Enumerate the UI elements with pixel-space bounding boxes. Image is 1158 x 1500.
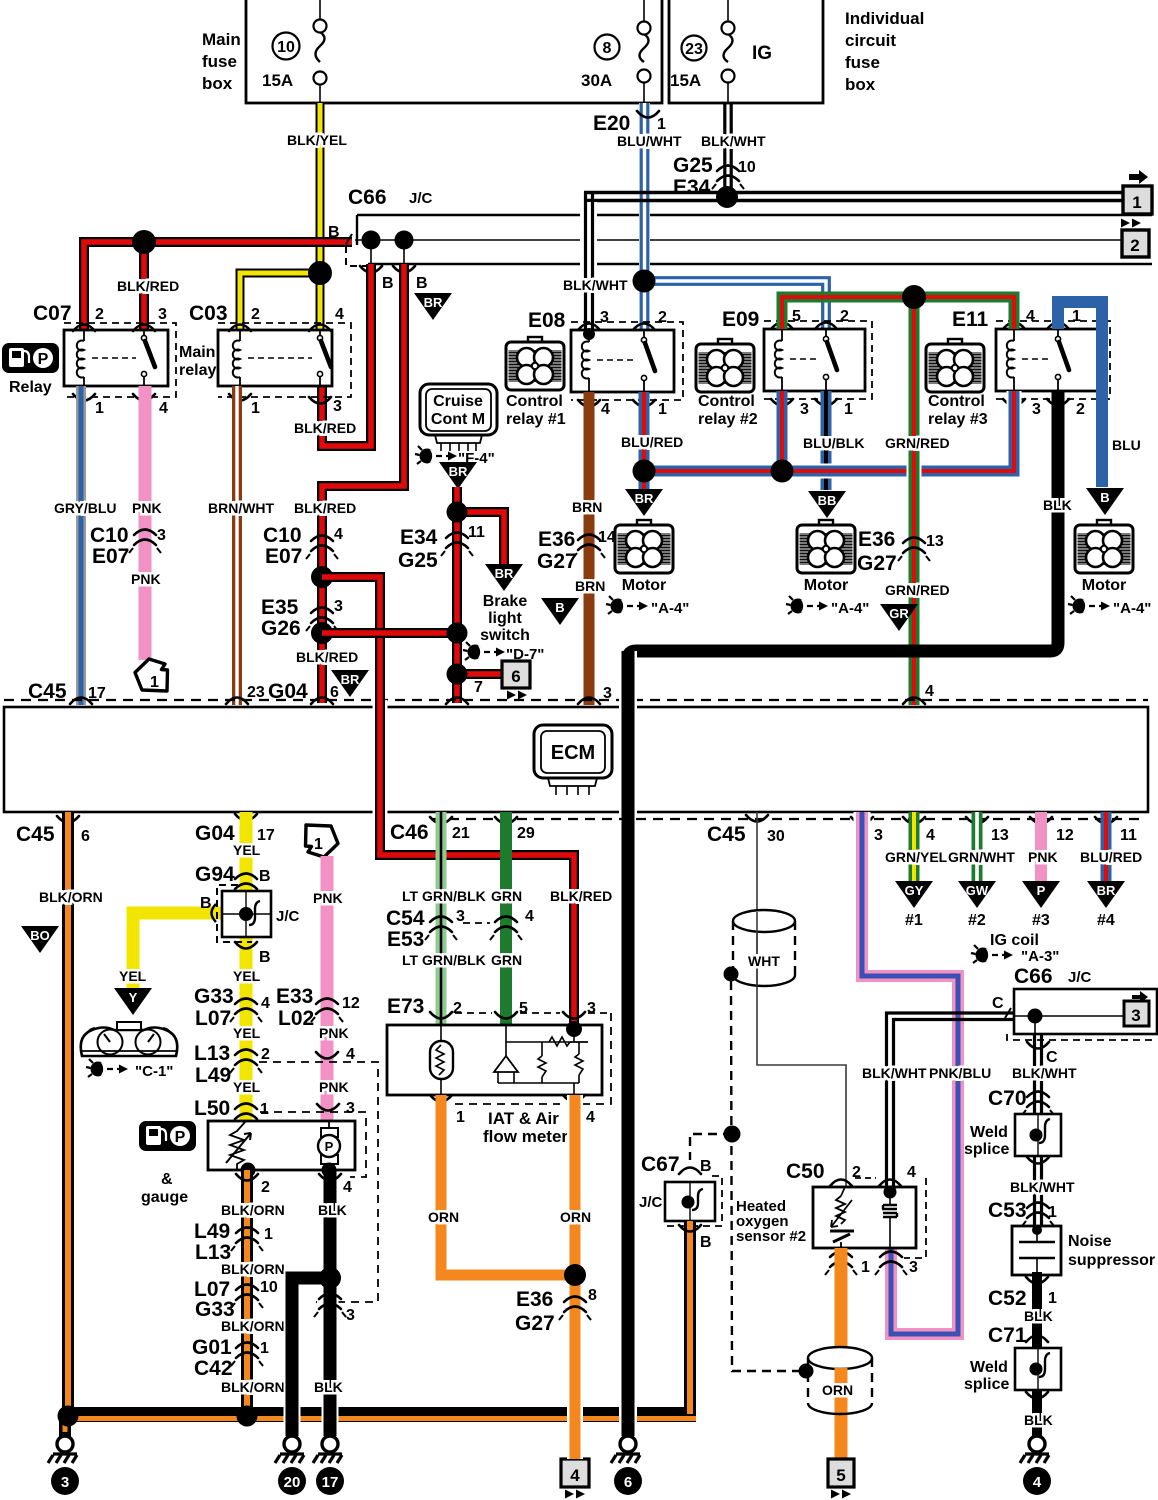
bus BLU/RED horizontal [644, 391, 1014, 471]
svg-text:4: 4 [335, 306, 344, 323]
wire BLK/WHT double to C66 and C50 [887, 1013, 1015, 1190]
svg-text:ORN: ORN [428, 1209, 459, 1225]
svg-text:3: 3 [587, 1000, 596, 1017]
svg-text:GY: GY [905, 883, 924, 898]
svg-text:relay #1: relay #1 [506, 411, 566, 428]
svg-text:5: 5 [792, 308, 801, 325]
svg-text:13: 13 [926, 533, 944, 550]
svg-text:gauge: gauge [141, 1189, 188, 1206]
dashed below C66-2 [1007, 1034, 1157, 1040]
triangle BR near C66 [414, 293, 452, 320]
wire BLK/RED cruise down [452, 487, 462, 703]
svg-text:C70: C70 [988, 1087, 1027, 1110]
svg-text:5: 5 [519, 1000, 528, 1017]
relay E09 coil [781, 329, 783, 341]
C50 pin 4 chevron [879, 1180, 901, 1187]
connector 1 box [1123, 186, 1152, 214]
svg-text:29: 29 [517, 825, 535, 842]
svg-text:C50: C50 [786, 1160, 825, 1183]
svg-text:Brake: Brake [483, 593, 528, 610]
svg-text:G25: G25 [673, 154, 713, 177]
svg-text:G33: G33 [194, 985, 234, 1008]
wire BLK/YEL branch to C03 pin 2 [240, 273, 321, 330]
connector G25/E34 pin10 [712, 166, 744, 190]
junction dot BLU/WHT [633, 270, 656, 293]
connector 2 box [1122, 230, 1149, 257]
svg-text:3: 3 [334, 598, 343, 615]
svg-text:21: 21 [452, 825, 470, 842]
triangle GR [880, 604, 918, 631]
svg-text:1: 1 [844, 401, 853, 418]
wire BLK/WHT down to E08 pin 3 [580, 193, 597, 331]
connector C54/E53 pin4 [490, 917, 522, 941]
C07 pin 2 [73, 325, 95, 332]
relay C03 box [218, 330, 332, 386]
relay C03 switch [319, 330, 321, 335]
C50 pin 2 chevron [830, 1180, 852, 1187]
G94 J/C box [222, 891, 271, 937]
wire PNK (ign) [1035, 812, 1047, 883]
svg-text:BLK: BLK [314, 1379, 343, 1395]
pin chevron B a [360, 266, 382, 273]
wire BLU/WHT bus to E09 pin 2 [638, 272, 829, 329]
svg-text:1: 1 [260, 1101, 269, 1118]
svg-text:C46: C46 [390, 821, 429, 844]
wire YEL branch to cluster [133, 913, 222, 991]
svg-text:2: 2 [840, 308, 849, 325]
ground 3 [48, 1436, 77, 1463]
wire BLU/RED E09 pin3 drop [777, 391, 788, 471]
wire BLK ground20 re-draw over bus [284, 1398, 301, 1436]
svg-text:PNK: PNK [319, 1079, 349, 1095]
relay C03 dashed link [248, 357, 312, 359]
junction dot bus at E08 [633, 460, 656, 483]
svg-text:PNK/BLU: PNK/BLU [929, 1065, 991, 1081]
svg-text:PNK: PNK [131, 571, 161, 587]
connector E35/G26 pin3 [306, 608, 338, 632]
box 5 [828, 1459, 854, 1487]
svg-text:E34: E34 [673, 176, 711, 199]
pin chevron C03-3 [309, 397, 331, 404]
svg-text:E11: E11 [952, 308, 989, 331]
svg-text:BLK/WHT: BLK/WHT [1010, 1179, 1075, 1195]
C07 pin 4 [133, 394, 155, 401]
svg-text:1: 1 [456, 1109, 465, 1126]
instrument cluster icon [81, 1022, 178, 1056]
svg-text:L49: L49 [195, 1064, 231, 1087]
triangle Y [114, 988, 152, 1015]
svg-text:IG: IG [752, 43, 772, 64]
G94 left pin chevron [212, 904, 217, 922]
svg-text:L02: L02 [278, 1007, 314, 1030]
wire BLK/RED C66 to C03 pin 3 [322, 264, 371, 446]
connector C70 chevrons [1022, 1092, 1054, 1116]
svg-text:Noise: Noise [1068, 1233, 1112, 1250]
weld splice 1 [1015, 1114, 1061, 1156]
svg-text:YEL: YEL [233, 842, 261, 858]
svg-text:YEL: YEL [119, 968, 147, 984]
svg-text:J/C: J/C [1068, 969, 1092, 986]
svg-text:BLK/RED: BLK/RED [296, 649, 358, 665]
svg-text:fuse: fuse [202, 52, 237, 71]
svg-text:"A-3": "A-3" [1021, 948, 1059, 965]
svg-text:C53: C53 [988, 1199, 1027, 1222]
svg-text:3: 3 [346, 1307, 355, 1324]
svg-text:3: 3 [158, 306, 167, 323]
svg-text:C10: C10 [90, 524, 129, 547]
svg-text:C52: C52 [988, 1287, 1027, 1310]
svg-text:ORN: ORN [822, 1382, 853, 1398]
connector L07/G33 pin10 [231, 1285, 263, 1309]
C50 box [813, 1187, 916, 1248]
svg-text:"A-4": "A-4" [1113, 600, 1151, 617]
noise suppressor box [1012, 1226, 1061, 1275]
connector E36/G27 pin8 [559, 1297, 591, 1321]
connector C10/E07 pin4 [306, 536, 338, 560]
svg-text:3: 3 [600, 309, 609, 326]
svg-text:C03: C03 [189, 302, 228, 325]
junction dot ORN [564, 1264, 586, 1286]
svg-text:23: 23 [685, 41, 703, 58]
svg-text:YEL: YEL [233, 968, 261, 984]
svg-text:2: 2 [261, 1046, 270, 1063]
svg-text:E73: E73 [387, 995, 424, 1018]
wire BLK/RED to box 6 [457, 669, 502, 679]
svg-text:B: B [555, 600, 564, 615]
wire GRN/YEL [909, 812, 920, 883]
svg-text:4: 4 [926, 827, 935, 844]
connector G01/C42 pin1 [231, 1343, 263, 1367]
svg-text:E53: E53 [387, 928, 424, 951]
C03 pin 1 [229, 394, 251, 401]
svg-text:BLK/RED: BLK/RED [294, 500, 356, 516]
pin 2 chevron [236, 1174, 258, 1181]
fuse 10 rating circle [273, 33, 300, 60]
svg-text:BRN: BRN [575, 578, 605, 594]
svg-text:C07: C07 [33, 302, 72, 325]
fuse 8 symbol [638, 22, 651, 104]
svg-text:GRN/RED: GRN/RED [885, 435, 950, 451]
svg-text:BRN/WHT: BRN/WHT [208, 500, 275, 516]
svg-text:BLK/ORN: BLK/ORN [221, 1318, 285, 1334]
E11 pin 2 [1047, 399, 1069, 406]
junction dot bus at E09 [771, 460, 794, 483]
eye to F-4 [415, 446, 457, 464]
svg-text:suppressor: suppressor [1068, 1252, 1155, 1269]
relay E11 dashed link [1022, 358, 1050, 360]
wire ORN re-draw over bus [567, 1398, 583, 1459]
wire BLU to E11 pin1 [1058, 302, 1102, 487]
svg-text:C45: C45 [707, 823, 746, 846]
wire stub above fuse 8 [643, 0, 645, 22]
svg-text:12: 12 [342, 995, 360, 1012]
motor 1 [615, 520, 673, 573]
wire PNK/BLU C45-3 to C50-3 [862, 812, 958, 1334]
svg-text:BLK/WHT: BLK/WHT [1012, 1065, 1077, 1081]
dashed connector row top [4, 699, 1148, 701]
svg-text:BO: BO [30, 928, 50, 943]
junction dot gauge out [322, 1163, 337, 1178]
svg-text:7: 7 [474, 679, 483, 696]
E08 pin 2 [633, 324, 655, 331]
svg-text:G01: G01 [192, 1336, 232, 1359]
relay E09 box [764, 329, 865, 391]
svg-text:1: 1 [658, 401, 667, 418]
svg-text:BLK/WHT: BLK/WHT [701, 133, 766, 149]
svg-text:15A: 15A [670, 71, 701, 90]
svg-text:BLK/WHT: BLK/WHT [862, 1065, 927, 1081]
eye to A-4 motor3 [1068, 596, 1110, 614]
wire ORN E73 pin1 [441, 1095, 567, 1275]
svg-text:B: B [382, 275, 394, 292]
svg-text:C45: C45 [28, 680, 67, 703]
wire BLK to ground 17 [322, 1278, 339, 1436]
svg-text:G04: G04 [195, 822, 235, 845]
connector E34/G25 pin11 [441, 533, 473, 557]
svg-text:3: 3 [61, 1474, 69, 1491]
relay E08 switch [643, 330, 645, 337]
svg-text:PNK: PNK [1028, 849, 1058, 865]
air flow circuit [494, 1025, 588, 1095]
svg-text:sensor #2: sensor #2 [736, 1228, 806, 1245]
fuse 23 rating circle [682, 36, 707, 61]
junction dot bus a [58, 1406, 79, 1427]
svg-text:C42: C42 [194, 1357, 233, 1380]
dashed shield drain [731, 981, 800, 1371]
svg-text:E07: E07 [92, 545, 129, 568]
E09 pin 5 [771, 323, 793, 330]
svg-text:4: 4 [261, 995, 270, 1012]
svg-text:Cruise: Cruise [433, 393, 483, 410]
triangle GW [958, 881, 996, 908]
top pin chevron 3 [578, 698, 600, 705]
svg-text:B: B [700, 1158, 712, 1175]
wire BLK/RED through ECM (re-draw over band) [380, 690, 574, 1028]
E08 pin 4 [578, 400, 600, 407]
svg-text:12: 12 [1056, 827, 1074, 844]
svg-text:"A-4": "A-4" [651, 600, 689, 617]
svg-text:ECM: ECM [551, 742, 595, 764]
svg-text:LT GRN/BLK: LT GRN/BLK [402, 888, 486, 904]
svg-text:Control: Control [698, 393, 755, 410]
wire GRN C46-29 [500, 812, 512, 1025]
svg-text:BLK/RED: BLK/RED [117, 278, 179, 294]
svg-text:B: B [259, 949, 271, 966]
wire ORN C50 pin1 to box 5 [835, 1248, 848, 1459]
wire PNK C07 pin4 [139, 386, 152, 660]
Cruise Cont M box [420, 384, 497, 451]
fan icon E09 [696, 339, 754, 392]
svg-text:1: 1 [264, 1226, 273, 1243]
svg-text:E36: E36 [858, 528, 895, 551]
eye to D-7 [463, 642, 505, 660]
wire ORN E73 pin4 to box 4 [567, 1095, 583, 1459]
junction dot shield [724, 1126, 741, 1143]
svg-text:Main: Main [202, 30, 241, 49]
svg-text:C45: C45 [16, 823, 55, 846]
dashed branch to C67 [690, 1134, 732, 1160]
svg-text:IG coil: IG coil [990, 932, 1039, 949]
svg-text:2: 2 [453, 1000, 462, 1017]
svg-text:E33: E33 [276, 985, 313, 1008]
svg-text:YEL: YEL [233, 1079, 261, 1095]
pin 11 chevron [1095, 817, 1117, 824]
C67 dashed boundary [665, 1176, 722, 1226]
wire BLK ground17 re-draw over bus [322, 1398, 339, 1436]
ground 6 [611, 1436, 640, 1463]
triangle GY [895, 881, 933, 908]
svg-text:C67: C67 [641, 1153, 680, 1176]
svg-text:Main: Main [179, 344, 215, 361]
svg-text:BR: BR [635, 491, 654, 506]
svg-text:6: 6 [81, 828, 90, 845]
box 3 arrow [1132, 991, 1148, 1003]
svg-text:L50: L50 [194, 1097, 230, 1120]
svg-text:17: 17 [88, 685, 106, 702]
svg-text:relay #2: relay #2 [698, 411, 758, 428]
relay E09 dashed boundary [764, 321, 872, 399]
C03 pin 4 [309, 325, 331, 332]
relay E09 dashed link [790, 358, 818, 360]
junction dot sender out [241, 1163, 256, 1178]
svg-text:8: 8 [588, 1287, 597, 1304]
wire BLK/WHT below C66-2 [1035, 1034, 1042, 1114]
stub below dot b [403, 240, 405, 264]
shield dot WHT [724, 967, 739, 982]
svg-text:BR: BR [449, 464, 468, 479]
junction dot brake a [447, 623, 468, 644]
svg-text:relay: relay [179, 362, 216, 379]
relay E08 dashed link [597, 359, 636, 361]
svg-text:4: 4 [586, 1109, 595, 1126]
connector E33/L02 pin12 [311, 999, 343, 1023]
wire LT GRN/BLK C46-21 [436, 812, 447, 1025]
svg-text:PNK: PNK [132, 500, 162, 516]
C50 dashed boundary [904, 1178, 926, 1258]
svg-text:1: 1 [260, 1340, 269, 1357]
pin 4 chevron (pink) [316, 1052, 338, 1059]
svg-text:BLU/RED: BLU/RED [1080, 849, 1142, 865]
svg-text:BLK/RED: BLK/RED [550, 888, 612, 904]
svg-text:BLK/ORN: BLK/ORN [221, 1261, 285, 1277]
wire BLK through ECM to ground 6 [619, 651, 637, 1436]
svg-text:BLK: BLK [1043, 497, 1072, 513]
top pin chevron 7 [446, 698, 468, 705]
triangle BR #4 [1087, 881, 1125, 908]
svg-text:circuit: circuit [845, 31, 896, 50]
svg-text:G27: G27 [515, 1312, 555, 1335]
pin 12 chevron [1030, 817, 1052, 824]
svg-text:BLU/BLK: BLU/BLK [803, 435, 864, 451]
svg-text:BLK: BLK [318, 1202, 347, 1218]
pin 13 chevron [966, 817, 988, 824]
svg-text:4: 4 [601, 401, 610, 418]
relay C07 dashed boundary [64, 323, 176, 397]
F/P and gauge icon [139, 1121, 196, 1151]
E09 pin 3 [771, 399, 793, 406]
wire BLK/WHT weld1 to C53 [1035, 1156, 1042, 1226]
fuse 8 rating circle [595, 35, 620, 60]
svg-text:J/C: J/C [639, 1194, 663, 1211]
fuse 23 symbol [722, 22, 735, 104]
svg-text:Motor: Motor [622, 577, 666, 594]
ground 17 [313, 1436, 342, 1463]
E09 pin 1 [815, 399, 837, 406]
svg-text:#3: #3 [1032, 912, 1050, 929]
pin 4 chevron (blk) [319, 1174, 341, 1181]
svg-text:GRN: GRN [491, 952, 522, 968]
svg-text:C: C [992, 995, 1004, 1012]
svg-text:4: 4 [343, 1179, 352, 1196]
svg-text:10: 10 [277, 39, 295, 56]
wire BLK/ORN from C45 pin6 [62, 812, 74, 1418]
svg-text:20: 20 [284, 1474, 301, 1491]
connector 2 arrows [1121, 219, 1141, 228]
svg-text:10: 10 [738, 159, 756, 176]
junction dot C66-2 [1028, 1009, 1043, 1024]
relay E11 switch [1057, 329, 1059, 336]
wire BLK weld2 to ground [1032, 1390, 1042, 1436]
svg-text:E35: E35 [261, 596, 299, 619]
ground 4 (right) [1020, 1436, 1049, 1463]
svg-text:B: B [200, 895, 212, 912]
svg-text:11: 11 [468, 524, 485, 541]
connector L13/L49 pin2 [230, 1050, 262, 1074]
triangle B (BRN) [541, 598, 579, 625]
sender resistor [226, 1121, 251, 1170]
svg-text:30A: 30A [581, 71, 612, 90]
pin 3 chevron [851, 817, 873, 824]
svg-text:E36: E36 [538, 528, 575, 551]
svg-text:"A-4": "A-4" [831, 600, 869, 617]
svg-text:1: 1 [657, 116, 666, 133]
svg-text:GRN/YEL: GRN/YEL [885, 849, 948, 865]
svg-text:4: 4 [570, 1466, 580, 1485]
svg-text:3: 3 [874, 827, 883, 844]
svg-text:2: 2 [1076, 401, 1085, 418]
C67 J/C box [665, 1182, 715, 1221]
junction dot cruise [447, 502, 468, 523]
svg-text:Motor: Motor [804, 577, 848, 594]
C50 pin 1 chevron [825, 1252, 857, 1276]
svg-text:B: B [328, 224, 340, 241]
svg-text:6: 6 [511, 667, 520, 686]
E09 pin 2 [815, 323, 837, 330]
relay C07 dashed link [92, 357, 136, 359]
svg-text:BR: BR [1097, 883, 1116, 898]
svg-text:BLU/RED: BLU/RED [621, 434, 683, 450]
wire WHT C45-30 [757, 812, 846, 1190]
fan icon E11 [926, 339, 984, 392]
svg-text:B: B [416, 275, 428, 292]
svg-text:GRN: GRN [491, 888, 522, 904]
svg-text:BRN: BRN [572, 499, 602, 515]
connector L49/L13 pin1 [231, 1228, 263, 1252]
wire stub above fuse 10 [319, 0, 321, 20]
svg-text:BR: BR [341, 672, 360, 687]
chevron below G94 [235, 942, 257, 949]
triangle BR at ECM pin 6 [331, 670, 369, 697]
shield dot ORN [799, 1364, 814, 1379]
wire YEL G04-17 [240, 812, 253, 1123]
svg-text:BLK/ORN: BLK/ORN [221, 1379, 285, 1395]
relay C07 coil [83, 330, 85, 341]
svg-text:J/C: J/C [409, 190, 433, 207]
triangle BR (motor1) [625, 489, 663, 516]
svg-text:L49: L49 [194, 1220, 230, 1243]
bus GRN/RED E09 pin5 to E11 pin4 [782, 297, 1014, 329]
svg-text:GRN/RED: GRN/RED [885, 582, 950, 598]
